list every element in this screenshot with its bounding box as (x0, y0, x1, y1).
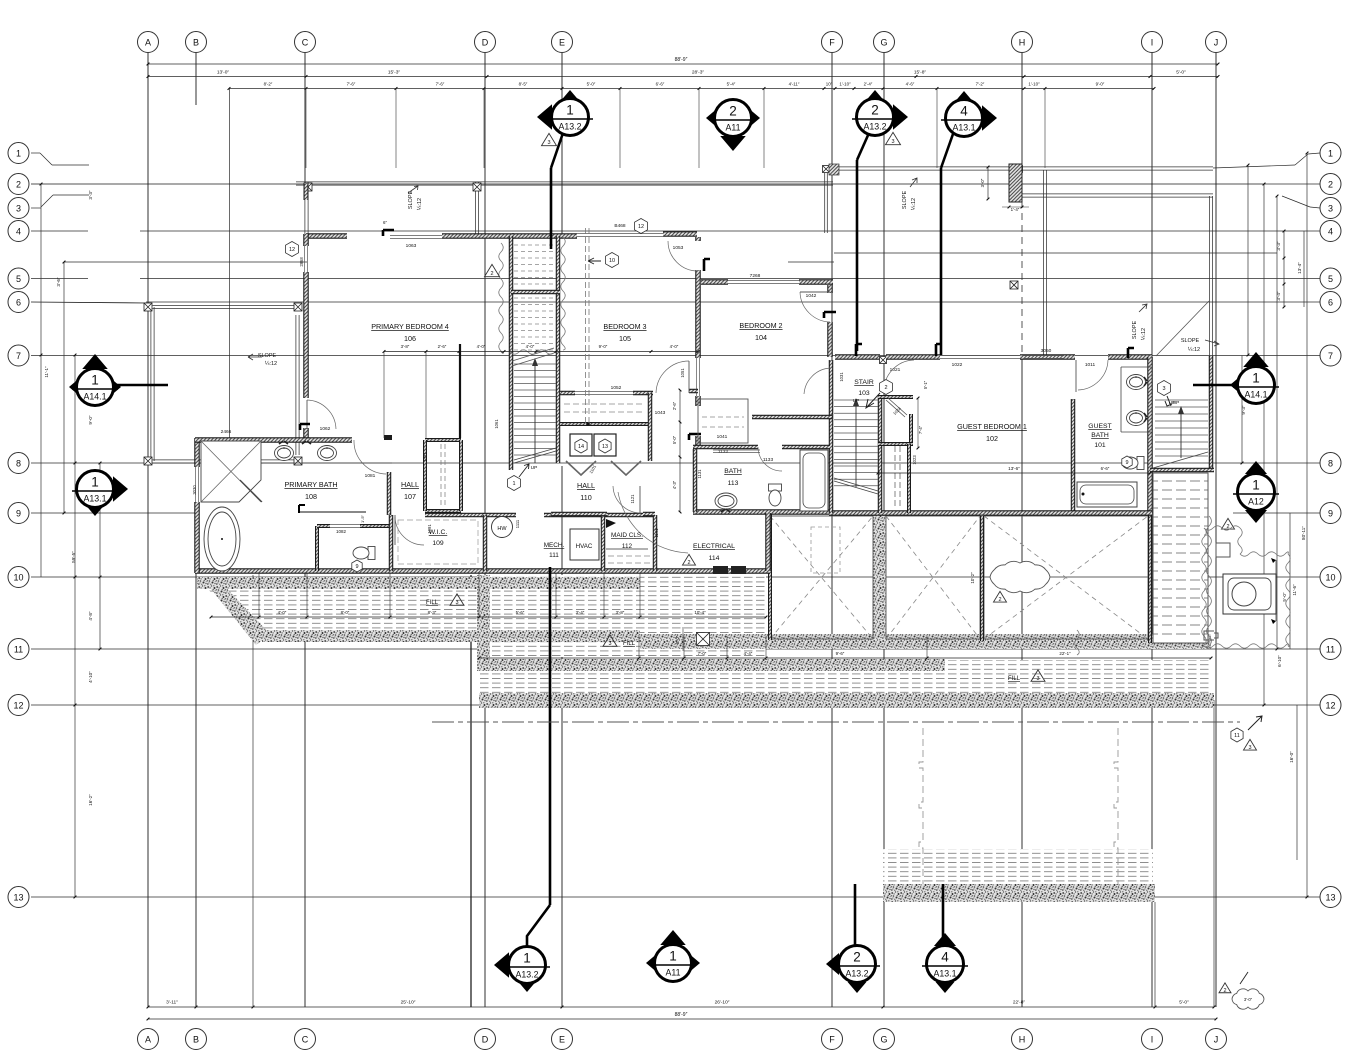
deck bays with X bracing (770, 516, 873, 639)
svg-text:7′-4″: 7′-4″ (918, 425, 923, 434)
svg-text:3′-11″: 3′-11″ (166, 1000, 178, 1006)
svg-text:10: 10 (13, 572, 23, 582)
svg-text:1052: 1052 (611, 385, 622, 391)
svg-text:59′-5″: 59′-5″ (71, 551, 76, 563)
svg-text:3′-0″: 3′-0″ (980, 178, 985, 187)
svg-text:2′-6″: 2′-6″ (438, 344, 447, 349)
svg-text:2′-0″: 2′-0″ (675, 635, 680, 644)
svg-text:9′-0″: 9′-0″ (1096, 82, 1105, 87)
svg-text:26′-10″: 26′-10″ (715, 1000, 730, 1006)
svg-text:13: 13 (1325, 892, 1335, 902)
svg-text:¼:12: ¼:12 (1141, 328, 1147, 340)
electrical door bits (613, 486, 641, 513)
svg-text:8: 8 (1328, 458, 1333, 468)
svg-text:1: 1 (512, 481, 515, 487)
door 1021 (884, 360, 914, 392)
svg-text:B468: B468 (614, 223, 626, 229)
svg-text:BATH: BATH (724, 468, 742, 475)
svg-text:1133: 1133 (763, 457, 774, 463)
svg-text:HALL: HALL (401, 480, 419, 489)
svg-text:2: 2 (871, 103, 879, 118)
svg-text:102: 102 (986, 434, 998, 443)
grid vertical lines (147, 53, 149, 1007)
svg-text:2: 2 (884, 385, 887, 391)
bath113 fixtures (715, 493, 737, 509)
svg-text:7: 7 (1328, 351, 1333, 361)
svg-text:C: C (302, 37, 309, 47)
svg-text:¼:12: ¼:12 (417, 198, 423, 210)
svg-text:7′-6″: 7′-6″ (347, 82, 356, 87)
chimney (1009, 164, 1022, 202)
svg-text:PRIMARY BEDROOM 4: PRIMARY BEDROOM 4 (371, 322, 449, 331)
svg-text:MECH.: MECH. (544, 542, 565, 549)
row leader lines (31, 152, 40, 154)
row circles left/right (8, 143, 29, 164)
svg-text:1042: 1042 (806, 293, 817, 299)
svg-text:9′-3″: 9′-3″ (1241, 405, 1246, 415)
callout 2/A13.2 top (893, 104, 908, 130)
svg-text:A13.2: A13.2 (846, 969, 869, 979)
svg-text:C: C (302, 1034, 309, 1044)
dim 13-6 guest bed (878, 472, 1150, 474)
svg-text:1′-10″: 1′-10″ (839, 82, 851, 87)
svg-text:12: 12 (13, 700, 23, 710)
svg-text:13′-4″: 13′-4″ (1297, 262, 1302, 274)
svg-text:FILL: FILL (623, 641, 636, 647)
svg-text:F: F (829, 1034, 835, 1044)
callout 1/A14.1 right (1193, 384, 1237, 387)
svg-text:3: 3 (1162, 386, 1165, 392)
bottom callouts (494, 952, 509, 978)
svg-text:3′-6″: 3′-6″ (56, 277, 61, 287)
svg-text:88′-9″: 88′-9″ (675, 57, 688, 63)
bottom right cloud note (1219, 983, 1231, 993)
svg-text:6″: 6″ (383, 220, 387, 225)
svg-text:A13.2: A13.2 (516, 970, 539, 980)
svg-text:1141: 1141 (654, 528, 659, 538)
svg-text:2: 2 (1328, 179, 1333, 189)
spa / patio bottom right (1204, 526, 1240, 530)
svg-text:D: D (482, 1034, 489, 1044)
svg-text:15′-3″: 15′-3″ (388, 70, 401, 76)
svg-text:UP: UP (853, 398, 860, 404)
svg-text:A13.1: A13.1 (934, 969, 957, 979)
svg-text:1′-10″: 1′-10″ (1028, 82, 1040, 87)
guest bath fixtures (1120, 367, 1122, 432)
svg-text:13′-6″: 13′-6″ (1008, 466, 1020, 471)
svg-text:2466: 2466 (221, 429, 232, 435)
left/right margin dimension stacks (40, 184, 42, 577)
svg-text:6′-6″: 6′-6″ (1101, 466, 1110, 471)
svg-text:E: E (559, 37, 565, 47)
wic dashes (398, 520, 478, 564)
svg-text:1011: 1011 (1085, 362, 1096, 368)
svg-text:ELECTRICAL: ELECTRICAL (693, 543, 735, 550)
hex11 + tri3 note (1231, 728, 1243, 742)
svg-text:12: 12 (638, 224, 644, 230)
svg-text:1061: 1061 (494, 419, 499, 429)
svg-text:11′-1″: 11′-1″ (44, 366, 49, 378)
svg-text:A: A (145, 37, 151, 47)
svg-text:A13.2: A13.2 (864, 122, 887, 132)
svg-text:STAIR: STAIR (854, 379, 874, 386)
svg-text:110: 110 (580, 493, 591, 502)
svg-text:10′-4″: 10′-4″ (694, 610, 706, 615)
svg-text:2868: 2868 (299, 257, 304, 267)
svg-text:MAID CLS.: MAID CLS. (611, 532, 643, 539)
svg-text:1051: 1051 (680, 368, 685, 378)
svg-text:11: 11 (1326, 644, 1335, 654)
svg-text:UP: UP (1169, 400, 1176, 406)
svg-text:1091: 1091 (427, 524, 432, 534)
svg-text:6′-10″: 6′-10″ (1277, 655, 1282, 667)
stair103 treads (834, 399, 878, 401)
svg-text:¼:12: ¼:12 (1188, 347, 1200, 353)
bottom dimension tiers (148, 1006, 1214, 1008)
svg-text:3: 3 (547, 140, 550, 146)
svg-text:3′-3″: 3′-3″ (88, 190, 93, 200)
svg-text:1: 1 (1252, 478, 1260, 493)
svg-text:7268: 7268 (750, 273, 761, 279)
svg-text:9: 9 (355, 564, 358, 570)
svg-text:3′-4″: 3′-4″ (1276, 291, 1281, 301)
grid circles top/bottom (138, 32, 159, 53)
svg-text:1081: 1081 (365, 473, 376, 479)
svg-text:UP: UP (531, 465, 538, 471)
fill bands (207, 589, 640, 630)
svg-text:109: 109 (432, 540, 444, 547)
svg-text:3′-0″: 3′-0″ (1244, 997, 1253, 1002)
svg-text:22′-8″: 22′-8″ (1013, 1000, 1026, 1006)
svg-text:3: 3 (455, 600, 458, 606)
svg-text:1′-4″: 1′-4″ (1011, 207, 1020, 212)
svg-text:22′-1″: 22′-1″ (1059, 651, 1071, 656)
svg-text:11′-6″: 11′-6″ (1292, 584, 1297, 596)
svg-text:J: J (1214, 1034, 1219, 1044)
svg-text:G: G (880, 37, 887, 47)
svg-text:3: 3 (16, 203, 21, 213)
svg-text:8′-2″: 8′-2″ (264, 82, 273, 87)
svg-text:88′-9″: 88′-9″ (675, 1012, 688, 1018)
svg-text:A: A (145, 1034, 151, 1044)
bath113 walls (693, 445, 758, 450)
bedroom2 top wall (701, 279, 728, 285)
svg-text:2: 2 (853, 950, 861, 965)
svg-text:3: 3 (1328, 203, 1333, 213)
svg-text:HALL: HALL (577, 481, 595, 490)
svg-text:3′-4″: 3′-4″ (576, 610, 585, 615)
svg-text:16′-2″: 16′-2″ (88, 794, 93, 806)
bedroom3 east wall (695, 237, 701, 241)
hall110 dims (679, 390, 681, 512)
svg-text:9′-6″: 9′-6″ (836, 651, 845, 656)
svg-text:E: E (559, 1034, 565, 1044)
svg-text:13: 13 (602, 444, 608, 450)
svg-text:15′-8″: 15′-8″ (914, 70, 927, 76)
svg-text:101: 101 (1094, 442, 1106, 449)
svg-text:113: 113 (728, 480, 739, 487)
svg-text:2: 2 (16, 179, 21, 189)
svg-text:1121: 1121 (630, 494, 635, 504)
svg-text:FILL: FILL (1008, 676, 1021, 682)
svg-text:7′-2″: 7′-2″ (976, 82, 985, 87)
svg-text:4′-0″: 4′-0″ (670, 344, 679, 349)
svg-text:3: 3 (1036, 676, 1039, 682)
svg-text:10: 10 (609, 258, 615, 264)
svg-text:1022: 1022 (952, 362, 963, 368)
svg-text:13: 13 (13, 892, 23, 902)
svg-text:¼:12: ¼:12 (911, 198, 917, 210)
svg-text:11: 11 (1234, 733, 1240, 739)
svg-text:1: 1 (566, 103, 574, 118)
callout 1/A13.2 top (537, 104, 552, 130)
svg-text:2′-6″: 2′-6″ (672, 401, 677, 410)
svg-text:1043: 1043 (655, 410, 666, 416)
svg-text:A14.1: A14.1 (84, 392, 107, 402)
svg-text:BEDROOM 2: BEDROOM 2 (739, 321, 782, 330)
svg-text:I: I (1151, 1034, 1154, 1044)
svg-text:2′-4″: 2′-4″ (864, 82, 873, 87)
fill area dims (211, 616, 766, 618)
svg-text:SLOPE: SLOPE (1132, 320, 1138, 339)
svg-text:1: 1 (523, 951, 531, 966)
svg-text:B: B (193, 1034, 199, 1044)
svg-text:4: 4 (960, 104, 968, 119)
callout 1/A14.1 left (116, 384, 168, 387)
svg-text:3: 3 (608, 641, 611, 647)
svg-text:12: 12 (289, 247, 295, 253)
svg-text:SLOPE: SLOPE (1181, 338, 1200, 344)
svg-text:¼:12: ¼:12 (265, 361, 277, 367)
interior dim line y350 (384, 351, 698, 353)
svg-text:9: 9 (1328, 508, 1333, 518)
bath/hall partition (387, 472, 392, 515)
svg-text:1: 1 (1328, 148, 1333, 158)
svg-text:1053: 1053 (673, 245, 684, 251)
callout 1/A13.1 left (113, 476, 128, 502)
svg-text:105: 105 (619, 334, 631, 343)
svg-text:8′-0″: 8′-0″ (341, 610, 350, 615)
svg-text:3030: 3030 (192, 485, 197, 495)
misc tags (606, 253, 619, 268)
svg-text:7′-0″: 7′-0″ (698, 651, 707, 656)
svg-text:A14.1: A14.1 (1245, 390, 1268, 400)
exterior walls: top wing (306, 233, 347, 239)
svg-text:9′-0″: 9′-0″ (88, 415, 93, 425)
svg-text:6′-6″: 6′-6″ (656, 82, 665, 87)
svg-text:F: F (829, 37, 835, 47)
stair103 top wall / right wing north wall y357 (835, 354, 880, 360)
svg-text:5′-6″: 5′-6″ (516, 610, 525, 615)
svg-text:8′-3″: 8′-3″ (428, 610, 437, 615)
svg-text:1031: 1031 (839, 372, 844, 382)
svg-text:10: 10 (1325, 572, 1335, 582)
main stair treads (514, 244, 556, 246)
svg-text:3′-8″: 3′-8″ (401, 344, 410, 349)
svg-text:2: 2 (687, 560, 690, 566)
hall110 south walls (551, 512, 607, 517)
bedroom2 east wall + door 1042 (827, 285, 833, 293)
roof edges (296, 181, 833, 183)
svg-text:D: D (482, 37, 489, 47)
svg-text:3050: 3050 (1041, 348, 1052, 354)
callout 2/A11 top (706, 110, 715, 125)
svg-text:16′-0″: 16′-0″ (1289, 751, 1294, 763)
svg-text:FILL: FILL (426, 600, 439, 606)
hall110 linen walls (560, 391, 575, 396)
svg-text:5′-0″: 5′-0″ (1179, 1000, 1189, 1006)
svg-text:2: 2 (1223, 988, 1226, 994)
HW tank (492, 517, 513, 538)
svg-text:BEDROOM 3: BEDROOM 3 (603, 322, 646, 331)
svg-text:11: 11 (14, 644, 23, 654)
svg-text:111: 111 (549, 552, 559, 559)
svg-text:2: 2 (490, 271, 493, 277)
svg-text:A13.1: A13.1 (84, 494, 107, 504)
door 1011 (1078, 360, 1108, 390)
svg-text:4′-8″: 4′-8″ (88, 611, 93, 621)
primary bath north wall (195, 437, 352, 443)
interior: wic/mech top wall y515 (425, 513, 516, 518)
svg-text:9: 9 (16, 508, 21, 518)
svg-text:14: 14 (578, 444, 584, 450)
svg-text:4: 4 (941, 950, 949, 965)
svg-text:5: 5 (16, 274, 21, 284)
svg-text:4′-0″: 4′-0″ (477, 344, 486, 349)
svg-text:SLOPE: SLOPE (408, 190, 414, 209)
svg-text:3: 3 (1248, 745, 1251, 751)
door 1062 (307, 400, 336, 429)
entry stair right wing (1155, 399, 1208, 401)
svg-text:108: 108 (305, 492, 317, 501)
svg-text:1071: 1071 (423, 452, 428, 462)
svg-text:PRIMARY BATH: PRIMARY BATH (284, 480, 337, 489)
svg-text:5: 5 (1328, 274, 1333, 284)
svg-text:5′-0″: 5′-0″ (672, 435, 677, 444)
svg-text:B: B (193, 37, 199, 47)
svg-text:4′-0″: 4′-0″ (526, 344, 535, 349)
stairs main shaft (509, 236, 514, 470)
svg-text:1: 1 (91, 475, 99, 490)
svg-text:104: 104 (755, 333, 767, 342)
svg-text:1′-5″: 1′-5″ (360, 514, 365, 523)
svg-text:A12: A12 (1248, 497, 1264, 507)
top dimension tiers (148, 63, 1218, 65)
svg-text:HW: HW (497, 526, 507, 532)
toilet room (315, 526, 319, 571)
svg-text:J: J (1214, 37, 1219, 47)
centerline (432, 721, 1240, 723)
svg-text:8′-5″: 8′-5″ (519, 82, 528, 87)
svg-text:103: 103 (858, 390, 870, 397)
svg-text:28′-3″: 28′-3″ (692, 70, 705, 76)
stair103 walls (829, 360, 834, 513)
svg-text:4′-4″: 4′-4″ (744, 651, 753, 656)
steps strip lower right (1153, 473, 1208, 643)
svg-text:HVAC: HVAC (576, 543, 593, 550)
svg-text:3: 3 (891, 139, 894, 145)
svg-text:1063: 1063 (406, 243, 417, 249)
svg-text:13′-0″: 13′-0″ (217, 70, 230, 76)
svg-text:3′-3″: 3′-3″ (1276, 241, 1281, 251)
cabinets 14/13 (570, 434, 592, 456)
svg-text:7: 7 (16, 351, 21, 361)
svg-text:25′-10″: 25′-10″ (401, 1000, 416, 1006)
svg-text:GUEST BEDROOM 1: GUEST BEDROOM 1 (957, 422, 1027, 431)
svg-text:4: 4 (1328, 226, 1333, 236)
svg-text:2: 2 (729, 104, 737, 119)
left exterior wall (303, 234, 309, 246)
svg-text:4′-6″: 4′-6″ (906, 82, 915, 87)
svg-text:9: 9 (1125, 460, 1128, 466)
svg-text:107: 107 (404, 492, 416, 501)
svg-text:H: H (1019, 1034, 1026, 1044)
svg-text:4′-11″: 4′-11″ (789, 82, 800, 87)
svg-text:1: 1 (16, 148, 21, 158)
svg-text:1023: 1023 (912, 455, 917, 465)
svg-text:4′-0″: 4′-0″ (278, 610, 287, 615)
svg-text:SLOPE: SLOPE (902, 190, 908, 209)
section cut lines (550, 168, 553, 249)
svg-text:1: 1 (91, 373, 99, 388)
svg-text:10′-2″: 10′-2″ (970, 572, 975, 584)
south walls (829, 510, 1152, 516)
svg-text:H: H (1019, 37, 1026, 47)
svg-text:6: 6 (1328, 297, 1333, 307)
svg-text:2: 2 (998, 597, 1001, 603)
svg-text:A13.1: A13.1 (953, 123, 976, 133)
bed2 closet (698, 399, 748, 443)
svg-text:BATH: BATH (1091, 432, 1109, 439)
svg-text:4′-3″: 4′-3″ (672, 480, 677, 489)
svg-text:12: 12 (1325, 700, 1335, 710)
svg-text:1062: 1062 (320, 426, 331, 432)
svg-text:4: 4 (16, 226, 21, 236)
svg-text:80′-11″: 80′-11″ (1301, 526, 1306, 540)
svg-text:4′-10″: 4′-10″ (88, 671, 93, 683)
svg-text:A11: A11 (726, 123, 741, 133)
svg-text:5′-0″: 5′-0″ (1176, 70, 1186, 76)
svg-text:1041: 1041 (717, 434, 728, 440)
svg-text:1131: 1131 (697, 469, 702, 479)
svg-text:SLOPE: SLOPE (258, 353, 277, 359)
svg-text:1021: 1021 (890, 367, 901, 373)
guest bed west wall (1071, 399, 1076, 513)
svg-text:5′-1″: 5′-1″ (923, 380, 928, 389)
svg-text:7′-6″: 7′-6″ (436, 82, 445, 87)
svg-text:5′-4″: 5′-4″ (727, 82, 736, 87)
svg-text:10″: 10″ (826, 82, 833, 87)
svg-text:9′-0″: 9′-0″ (599, 344, 608, 349)
svg-text:5′-0″: 5′-0″ (1282, 592, 1287, 602)
svg-text:106: 106 (404, 334, 416, 343)
primary bath fixtures (201, 441, 261, 502)
guest wing east wall (1147, 357, 1153, 513)
svg-text:1082: 1082 (336, 529, 347, 534)
bifold chevrons (566, 461, 596, 475)
svg-text:5′-0″: 5′-0″ (587, 82, 596, 87)
callout 4/A13.1 top (982, 105, 997, 131)
HVAC (570, 529, 599, 560)
svg-text:I: I (1151, 37, 1154, 47)
svg-text:1111: 1111 (515, 519, 520, 528)
svg-text:8: 8 (16, 458, 21, 468)
closet 1071 (425, 438, 461, 442)
svg-text:114: 114 (709, 555, 720, 562)
svg-text:1: 1 (669, 949, 677, 964)
svg-text:GUEST: GUEST (1088, 423, 1111, 430)
svg-text:1: 1 (1252, 371, 1260, 386)
